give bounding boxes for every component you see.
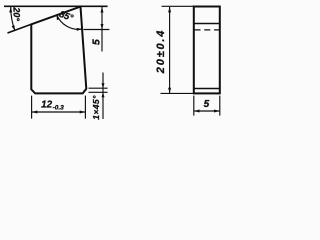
5 dimension line <box>101 7 103 52</box>
right extension line for 12 dimension <box>84 96 86 119</box>
5 dim arrow down <box>101 24 104 30</box>
chamfer dimension line <box>102 73 104 120</box>
side view bottom chamfer line <box>194 88 220 90</box>
side view hidden dashed line <box>195 29 220 31</box>
20+-0.4 arrow down <box>168 88 171 94</box>
side view outline <box>194 7 220 94</box>
12 dim arrow left <box>32 111 38 114</box>
85 deg arrow lower-right <box>77 28 83 31</box>
thickness 5 dimension line <box>194 110 220 112</box>
left extension line for 12 dimension <box>31 96 33 119</box>
chamfer lower extension line <box>89 91 108 93</box>
svg-text:5: 5 <box>204 99 210 110</box>
slant extension line for 20 deg angle <box>8 24 32 33</box>
chamfer arrow up <box>102 92 105 97</box>
top horizontal extension line <box>4 5 108 7</box>
85 deg angle dimension arc <box>57 15 83 30</box>
right extension line for thickness 5 <box>219 96 221 116</box>
20+-0.4 dimension line <box>169 7 171 93</box>
svg-text:12: 12 <box>41 99 52 110</box>
thickness arrow left <box>194 110 200 113</box>
svg-text:20±0.4: 20±0.4 <box>155 29 167 74</box>
20+-0.4 arrow up <box>168 7 171 12</box>
svg-text:20°: 20° <box>12 6 22 21</box>
12 dimension line <box>32 111 86 113</box>
20 deg arrow down <box>12 25 15 31</box>
20 deg angle dimension arc <box>11 7 15 31</box>
chamfer arrow down <box>102 83 105 88</box>
5 dim arrow up <box>101 7 104 13</box>
12 dim arrow right <box>80 111 86 114</box>
85 deg arrow upper-left <box>57 14 60 20</box>
side view top facet line <box>194 23 220 25</box>
svg-text:-0.3: -0.3 <box>53 105 65 112</box>
front view outline <box>31 7 86 94</box>
svg-text:5: 5 <box>91 39 103 45</box>
svg-text:1×45°: 1×45° <box>91 95 101 120</box>
20 deg arrow up <box>9 7 12 12</box>
bottom extension line of side view <box>161 92 194 94</box>
thickness arrow right <box>214 110 220 113</box>
left extension line for thickness 5 <box>193 96 195 116</box>
extension line for 5 dimension <box>84 29 110 31</box>
chamfer upper extension line <box>89 87 108 89</box>
top extension line of side view <box>162 5 194 7</box>
